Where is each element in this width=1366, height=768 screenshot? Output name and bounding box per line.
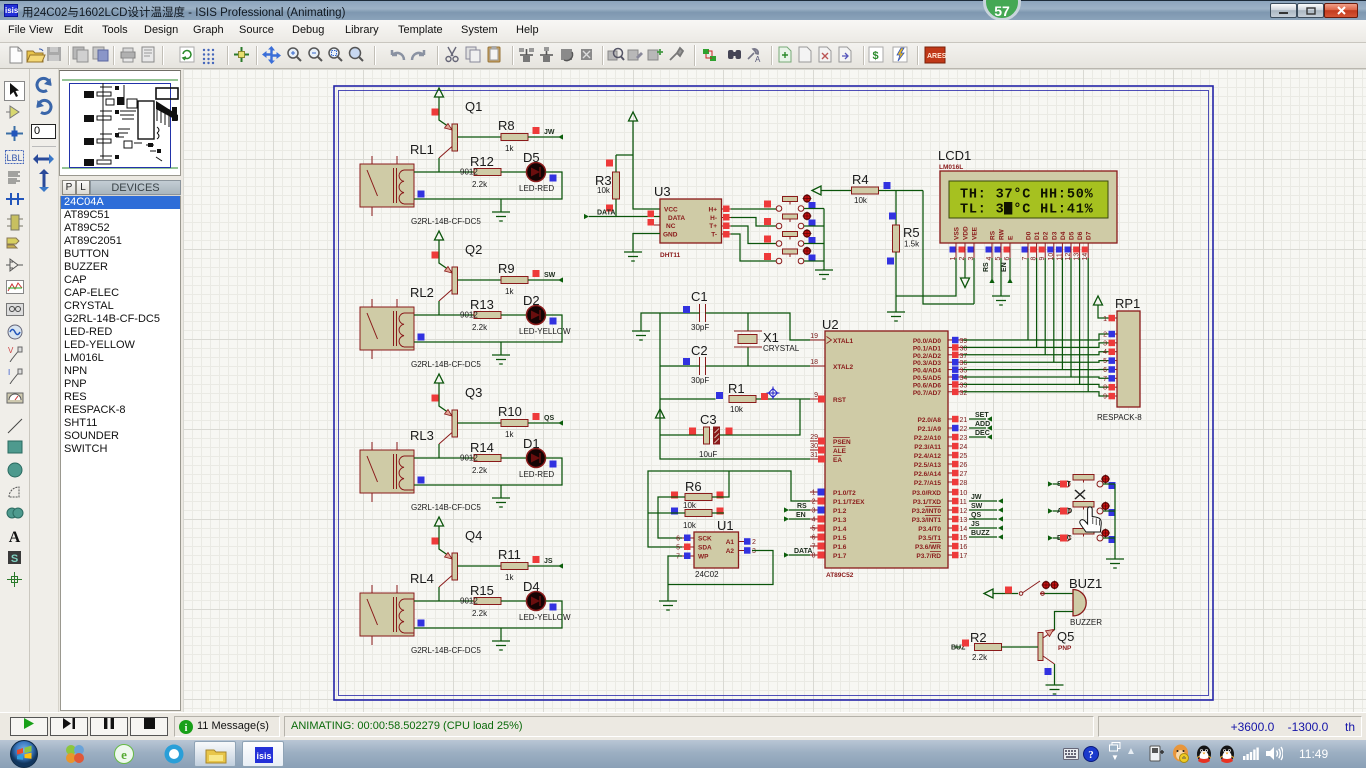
LCD pin 5 RW	[995, 228, 1006, 260]
RP1 pin 7	[1103, 375, 1117, 383]
svg-text:P0.4/AD4: P0.4/AD4	[913, 368, 942, 375]
svg-text:PSEN: PSEN	[833, 439, 851, 446]
power terminal VCC arrow (Q1 emitter)	[435, 88, 444, 97]
EEPROM U1 24C02	[676, 518, 756, 579]
svg-text:39: 39	[960, 338, 968, 345]
svg-text:5: 5	[1103, 358, 1107, 365]
wire LCD D2 to bus	[1044, 258, 1046, 355]
svg-text:7: 7	[676, 554, 680, 561]
wire EA to rail	[660, 435, 810, 459]
resistor R9 1k	[501, 277, 528, 284]
U2 pin 8 P1.7	[810, 552, 847, 561]
ground	[492, 212, 510, 221]
wire R2 to Q5 base	[1002, 646, 1039, 648]
wire R13 to LED D2	[501, 314, 526, 316]
svg-text:D5: D5	[1069, 231, 1076, 240]
U2 pin 31 EA	[810, 452, 842, 464]
svg-text:26: 26	[960, 462, 968, 469]
resistor R6 10k (pullup)	[685, 494, 712, 501]
resistor R2 2.2k (Q5 base)	[955, 646, 961, 648]
LCD pin 12 D5	[1065, 231, 1076, 260]
svg-text:LED-RED: LED-RED	[519, 470, 554, 479]
resistor R14 2.2k	[474, 455, 501, 462]
wire R9 to net SW	[528, 279, 559, 281]
svg-text:JS: JS	[544, 558, 553, 565]
U2 pin 39 P0.0/AD0	[913, 337, 968, 345]
svg-text:XTAL1: XTAL1	[833, 338, 853, 345]
wire P0.1 bus to RP1 pin 3	[963, 343, 1110, 348]
svg-text:P1.7: P1.7	[833, 553, 847, 560]
wire emitter vertical	[439, 526, 452, 558]
relay RL1 G2RL-14B-CF-DC5	[360, 156, 414, 216]
U3 DHT11	[648, 199, 731, 243]
svg-text:R8: R8	[498, 118, 515, 133]
U2 pin 24 P2.3/A11	[914, 443, 967, 451]
power terminal VCC arrow (Q3 emitter)	[435, 374, 444, 383]
wire LCD D7 to bus	[1087, 258, 1089, 392]
svg-text:LED-YELLOW: LED-YELLOW	[519, 327, 571, 336]
power terminal arrow (RST rail)	[656, 409, 665, 418]
svg-text:37: 37	[960, 353, 968, 360]
svg-text:JS: JS	[971, 521, 980, 528]
wire R10 to net QS	[528, 422, 559, 424]
svg-text:1k: 1k	[505, 430, 514, 439]
power terminal VCC arrow (Q2 emitter)	[435, 231, 444, 240]
svg-text:D1: D1	[523, 436, 540, 451]
capacitor C1 30pF	[691, 289, 709, 332]
svg-text:T-: T-	[711, 232, 717, 239]
U2 pin 28 P2.7/A15	[914, 479, 968, 487]
svg-text:D0: D0	[1026, 231, 1033, 240]
svg-text:WP: WP	[698, 554, 709, 561]
switch (relay contact)	[1019, 581, 1044, 595]
RP1 pin 4	[1103, 349, 1117, 357]
wire net SET	[1053, 483, 1064, 485]
svg-text:E: E	[1008, 235, 1015, 240]
crystal X1	[734, 313, 800, 366]
svg-text:10k: 10k	[683, 521, 697, 530]
svg-text:I: I	[8, 368, 10, 377]
svg-text:2.2k: 2.2k	[472, 323, 488, 332]
svg-text:JW: JW	[971, 494, 982, 501]
svg-text:P2.5/A13: P2.5/A13	[914, 462, 941, 469]
svg-text:2: 2	[1103, 332, 1107, 339]
svg-text:1k: 1k	[505, 144, 514, 153]
transistor Q3 (PNP 9012)	[439, 410, 458, 445]
U2 pin 1 P1.0/T2	[810, 489, 856, 498]
LED D4	[527, 592, 546, 611]
resistor 10k (second pullup)	[685, 510, 712, 517]
U2 pin 18 XTAL2	[810, 359, 853, 371]
U2 pin 33 P0.6/AD6	[913, 381, 968, 389]
power terminal arrow (DHT11 VCC rail)	[629, 112, 638, 121]
U2 pin 36 P0.3/AD3	[913, 359, 968, 367]
wire collector to relay coil	[438, 158, 440, 172]
U2 pin 15 P3.5/T1	[918, 534, 967, 542]
wire net JS	[969, 527, 997, 529]
resistor R15 2.2k	[474, 598, 501, 605]
ground (crystal)	[632, 331, 650, 340]
mouse cursor (hand)	[1075, 490, 1101, 532]
wire E net pointer	[1009, 258, 1011, 279]
U2 pin 23 P2.2/A10	[914, 434, 968, 442]
svg-text:2.2k: 2.2k	[972, 653, 988, 662]
svg-text:RS: RS	[797, 503, 807, 510]
svg-text:D1: D1	[1034, 231, 1041, 240]
LCD pin 3 VEE	[968, 226, 979, 260]
wire collector to relay coil	[438, 587, 440, 601]
svg-text:31: 31	[810, 452, 818, 459]
RP1 pin 5	[1103, 357, 1117, 365]
LCD pin 9 D2	[1039, 231, 1050, 260]
wire relay coil to R14	[414, 457, 474, 459]
wire net DEC	[1053, 537, 1064, 539]
LED D1	[527, 449, 546, 468]
svg-text:24: 24	[960, 444, 968, 451]
svg-text:1k: 1k	[505, 287, 514, 296]
svg-text:DATA: DATA	[794, 548, 812, 555]
buttons ground bus	[823, 209, 825, 271]
svg-text:P0.1/AD1: P0.1/AD1	[913, 345, 942, 352]
ground	[492, 641, 510, 650]
U3 pin state squares	[648, 211, 655, 218]
svg-text:PNP: PNP	[1058, 645, 1072, 652]
wire P0.3 bus to RP1 pin 5	[963, 361, 1110, 363]
driver block 1: transistor Q1, relay RL1	[360, 88, 563, 226]
svg-text:17: 17	[960, 553, 968, 560]
svg-text:16: 16	[960, 544, 968, 551]
U2 pin 22 P2.1/A9	[918, 425, 968, 433]
U2 pin 34 P0.5/AD5	[913, 374, 968, 382]
svg-text:9: 9	[814, 392, 818, 399]
capacitor C3 10uF electrolytic	[699, 412, 720, 459]
svg-text:R5: R5	[903, 225, 920, 240]
svg-text:T+: T+	[709, 223, 717, 230]
U2 pin 17 P3.7/RD	[916, 552, 967, 560]
svg-text:10k: 10k	[683, 501, 697, 510]
svg-text:Q3: Q3	[465, 385, 482, 400]
svg-text:D2: D2	[1043, 231, 1050, 240]
relay RL3 G2RL-14B-CF-DC5	[360, 442, 414, 502]
push button (sensor limit 2)	[776, 214, 804, 229]
wire net RS to P1.2	[789, 509, 810, 511]
svg-text:?: ?	[1088, 749, 1094, 761]
svg-text:AT89C52: AT89C52	[826, 572, 854, 579]
power terminal arrow (buzzer supply)	[984, 589, 993, 598]
svg-text:3: 3	[812, 508, 816, 515]
wire VSS to ground net	[896, 258, 956, 296]
svg-text:RP1: RP1	[1115, 296, 1140, 311]
wire power to RP1 pin1	[1098, 305, 1110, 318]
svg-text:VCC: VCC	[664, 207, 678, 214]
svg-text:V: V	[8, 346, 14, 355]
U2 pin 3 P1.2	[810, 507, 847, 516]
svg-text:RST: RST	[833, 397, 846, 404]
wire C3 net	[660, 399, 800, 435]
LCD pin 1 VSS	[950, 226, 961, 260]
push button (sensor limit 1)	[776, 197, 804, 212]
P3 overlines	[925, 507, 941, 552]
wire C1/C2 left rail	[659, 313, 661, 399]
U2 pin 29 PSEN	[810, 434, 851, 446]
power terminal arrow above RP1	[1094, 296, 1103, 305]
state squares	[418, 191, 425, 198]
microcontroller U2 AT89C52	[822, 317, 948, 579]
svg-text:6: 6	[676, 536, 680, 543]
svg-text:30: 30	[810, 443, 818, 450]
svg-text:VSS: VSS	[954, 226, 961, 240]
wire net SW	[969, 509, 997, 511]
svg-text:P2.2/A10: P2.2/A10	[914, 435, 941, 442]
svg-text:9012: 9012	[460, 454, 478, 463]
wire collector to relay coil	[438, 301, 440, 315]
wire buzzer to Q5 collector	[1055, 612, 1074, 631]
transistor Q4 (PNP 9012)	[439, 553, 458, 588]
svg-text:1.5k: 1.5k	[904, 240, 920, 249]
svg-text:QS: QS	[544, 415, 554, 422]
svg-text:P0.3/AD3: P0.3/AD3	[913, 360, 942, 367]
wire emitter vertical	[439, 240, 452, 272]
svg-text:P2.4/A12: P2.4/A12	[914, 453, 941, 460]
svg-text:12: 12	[960, 508, 968, 515]
wire emitter vertical	[439, 97, 452, 129]
svg-text:RL2: RL2	[410, 285, 434, 300]
resistor R1 10k (reset)	[660, 398, 716, 400]
U3 GND wire and ground	[633, 234, 660, 253]
svg-text:D6: D6	[1077, 231, 1084, 240]
push button ADD	[1064, 502, 1103, 515]
logic state red square	[432, 109, 439, 116]
svg-text:P2.0/A8: P2.0/A8	[918, 417, 942, 424]
svg-text:27: 27	[960, 471, 968, 478]
svg-text:3: 3	[752, 548, 756, 555]
red indicator dot	[803, 212, 812, 221]
svg-text:RL3: RL3	[410, 428, 434, 443]
wire U1 A1/A2 to bottom rail	[668, 551, 773, 585]
svg-text:P3.3/INT1: P3.3/INT1	[912, 517, 942, 524]
svg-text:2: 2	[812, 499, 816, 506]
svg-text:QS: QS	[971, 512, 981, 519]
svg-text:BUZZ: BUZZ	[971, 530, 990, 537]
wire LCD D6 to bus	[1079, 258, 1081, 384]
RP1 pin 8	[1103, 384, 1117, 392]
wire C2 net to XTAL2	[660, 365, 810, 367]
push button (sensor limit 4)	[776, 249, 804, 264]
ground	[492, 355, 510, 364]
wire relay coil to R13	[414, 314, 474, 316]
svg-text:C3: C3	[700, 412, 717, 427]
svg-text:U2: U2	[822, 317, 839, 332]
svg-text:XTAL2: XTAL2	[833, 364, 853, 371]
wire button DEC to gnd	[1103, 537, 1115, 539]
sheet border inner frame	[339, 91, 1209, 696]
LCD pin 10 D3	[1047, 231, 1058, 260]
svg-text:11: 11	[960, 499, 967, 506]
svg-text:RESPACK-8: RESPACK-8	[1097, 413, 1142, 422]
wire R6a right up	[712, 471, 729, 497]
wire button to gnd bus	[804, 225, 824, 227]
transistor Q2 (PNP 9012)	[439, 267, 458, 302]
svg-text:4: 4	[812, 517, 816, 524]
state squares	[418, 334, 425, 341]
wire LCD D1 to bus	[1036, 258, 1038, 347]
svg-text:P2.6/A14: P2.6/A14	[914, 471, 941, 478]
svg-text:A2: A2	[726, 548, 735, 555]
svg-text:SDA: SDA	[698, 545, 712, 552]
wire WP to ground	[668, 556, 682, 601]
ground	[492, 498, 510, 507]
wire collector to relay coil	[438, 444, 440, 458]
driver block 3: transistor Q3, relay RL3	[360, 374, 563, 512]
capacitor C2 30pF	[691, 343, 709, 385]
RP1 pin 2	[1103, 331, 1117, 339]
svg-text:1: 1	[812, 490, 816, 497]
svg-text:P3.7/RD: P3.7/RD	[916, 553, 941, 560]
wire R6a to SCK	[658, 497, 685, 538]
svg-text:H-: H-	[710, 215, 717, 222]
U2 pin 6 P1.5	[810, 534, 847, 543]
svg-text:6: 6	[1103, 367, 1107, 374]
U2 pin 37 P0.2/AD2	[913, 352, 968, 360]
U2 pin 10 P3.0/RXD	[912, 489, 967, 497]
driver block 4: transistor Q4, relay RL4	[360, 517, 571, 655]
svg-text:SW: SW	[544, 272, 556, 279]
svg-text:33: 33	[960, 382, 968, 389]
wire R6b right	[712, 512, 724, 514]
wire RW to ground	[1000, 258, 1002, 296]
U2 pin 7 P1.6	[810, 543, 847, 552]
svg-text:LED-YELLOW: LED-YELLOW	[519, 613, 571, 622]
svg-text:D5: D5	[523, 150, 540, 165]
svg-text:P2.1/A9: P2.1/A9	[918, 426, 942, 433]
wire net EN to P1.3	[789, 518, 810, 520]
svg-text:X1: X1	[763, 330, 779, 345]
svg-text:P1.5: P1.5	[833, 535, 847, 542]
wire base to R11	[458, 565, 502, 567]
svg-text:9012: 9012	[460, 168, 478, 177]
svg-text:DEC: DEC	[975, 430, 990, 437]
svg-text:3: 3	[1103, 340, 1107, 347]
svg-text:ADD: ADD	[975, 421, 990, 428]
svg-text:TH: 37°C HH:50%: TH: 37°C HH:50%	[960, 188, 1094, 203]
svg-text:P0.2/AD2: P0.2/AD2	[913, 353, 942, 360]
svg-text:1k: 1k	[505, 573, 514, 582]
wire relay coil to R15	[414, 600, 474, 602]
wire net ADD	[969, 427, 986, 429]
svg-text:JW: JW	[544, 129, 555, 136]
svg-text:9012: 9012	[460, 311, 478, 320]
wire R8 to net JW	[528, 136, 559, 138]
svg-text:TL: 3 °C HL:41%: TL: 3 °C HL:41%	[960, 203, 1094, 218]
svg-text:10: 10	[960, 490, 968, 497]
LCD pin 8 D1	[1030, 231, 1041, 260]
svg-text:LCD1: LCD1	[938, 148, 971, 163]
U2 pin 12 P3.2/INT0	[912, 507, 968, 515]
wire emitter vertical	[439, 383, 452, 415]
svg-text:2.2k: 2.2k	[472, 466, 488, 475]
wire R15 to LED D4	[501, 600, 526, 602]
svg-text:ARES: ARES	[927, 53, 947, 60]
svg-text:P3.4/T0: P3.4/T0	[918, 526, 941, 533]
LCD1 LM016L display	[938, 148, 1117, 243]
svg-text:isis: isis	[256, 751, 271, 761]
svg-text:2.2k: 2.2k	[472, 180, 488, 189]
svg-text:DHT11: DHT11	[660, 252, 681, 259]
U2 pin 25 P2.4/A12	[914, 452, 968, 460]
ground stub	[500, 628, 502, 641]
wire base to R10	[458, 422, 502, 424]
RP1 pin 3	[1103, 340, 1117, 348]
svg-text:1: 1	[1103, 316, 1107, 323]
wire button ADD to gnd	[1103, 510, 1115, 512]
svg-text:30pF: 30pF	[691, 323, 709, 332]
svg-text:D2: D2	[523, 293, 540, 308]
wire base to R8	[458, 136, 502, 138]
wire LCD D4 to bus	[1061, 258, 1063, 370]
U2 pin 21 P2.0/A8	[918, 416, 968, 424]
wire R14 to LED D1	[501, 457, 526, 459]
RP1 pin 6	[1103, 366, 1117, 374]
svg-text:32: 32	[960, 390, 968, 397]
svg-text:R6: R6	[685, 479, 702, 494]
wire switch to buzzer	[1045, 593, 1074, 595]
wire button to gnd bus	[804, 243, 824, 245]
U2 pin 11 P3.1/TXD	[913, 498, 967, 506]
svg-text:VDD: VDD	[963, 226, 970, 240]
resistor R4 10k	[852, 187, 879, 194]
logic state red square	[432, 395, 439, 402]
ground (U1)	[659, 601, 677, 610]
wire LCD D5 to bus	[1070, 258, 1072, 377]
switch state red dots	[1042, 581, 1051, 590]
svg-text:EN: EN	[1001, 262, 1008, 272]
svg-text:i: i	[185, 723, 188, 734]
resistor pack RP1 RESPACK-8	[1097, 296, 1142, 422]
svg-text:28: 28	[960, 480, 968, 487]
resistor R11 1k	[501, 563, 528, 570]
wire LED to return	[414, 172, 562, 199]
svg-text:15: 15	[960, 535, 968, 542]
svg-text:P0.0/AD0: P0.0/AD0	[913, 338, 942, 345]
wire R6b/SDA to P1.1	[648, 471, 810, 547]
svg-text:2: 2	[752, 539, 756, 546]
svg-text:EA: EA	[833, 457, 842, 464]
svg-text:e: e	[121, 747, 127, 762]
svg-text:14: 14	[960, 526, 968, 533]
wire P0.7 bus to RP1 pin 9	[963, 392, 1110, 396]
svg-text:D4: D4	[1060, 231, 1067, 240]
svg-text:CRYSTAL: CRYSTAL	[763, 344, 800, 353]
svg-text:22: 22	[960, 426, 968, 433]
svg-text:DATA: DATA	[597, 210, 615, 217]
ground stub	[500, 485, 502, 498]
wire button to gnd bus	[804, 208, 824, 210]
svg-text:R10: R10	[498, 404, 522, 419]
wire C1 left to ground	[641, 313, 700, 331]
svg-text:35: 35	[960, 368, 968, 375]
U2 pin 14 P3.4/T0	[918, 525, 967, 533]
wire P0.2 bus to RP1 pin 4	[963, 352, 1110, 355]
U2 pin 5 P1.4	[810, 525, 847, 534]
svg-text:A1: A1	[726, 539, 735, 546]
resistor R13 2.2k	[474, 312, 501, 319]
svg-text:P0.6/AD6: P0.6/AD6	[913, 382, 942, 389]
svg-text:18: 18	[810, 359, 818, 366]
svg-text:H+: H+	[709, 207, 718, 214]
LED D5	[527, 163, 546, 182]
svg-text:34: 34	[960, 375, 968, 382]
push button DEC	[1064, 529, 1103, 542]
